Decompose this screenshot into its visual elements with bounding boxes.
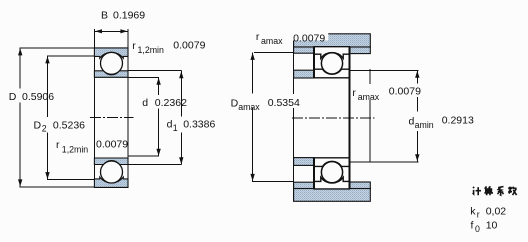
ball top (right view) bbox=[321, 53, 342, 74]
housing bottom-left shoulder bbox=[294, 182, 314, 188]
outer ring top (left view) bbox=[94, 48, 128, 58]
svg-text:1,2min: 1,2min bbox=[138, 45, 165, 55]
计算系数 (drawn glyphs) bbox=[473, 186, 517, 195]
ball top (left view) bbox=[101, 52, 123, 74]
svg-text:r: r bbox=[56, 139, 60, 151]
Damax dimension bbox=[252, 52, 254, 93]
ball bottom (left view) bbox=[101, 161, 123, 183]
svg-text:0.3386: 0.3386 bbox=[183, 119, 215, 131]
centerline right view bbox=[292, 117, 375, 119]
svg-text:0.2362: 0.2362 bbox=[155, 97, 187, 109]
svg-text:d: d bbox=[167, 119, 173, 131]
d dimension bbox=[128, 76, 159, 78]
svg-text:10: 10 bbox=[486, 220, 498, 232]
housing top band bbox=[294, 34, 371, 47]
svg-text:r: r bbox=[352, 87, 356, 99]
outer ring bottom (left view) bbox=[94, 177, 128, 187]
svg-text:0.0079: 0.0079 bbox=[173, 39, 205, 51]
svg-text:0.0079: 0.0079 bbox=[96, 139, 128, 151]
ball bottom (right view) bbox=[321, 162, 342, 183]
svg-text:0.1969: 0.1969 bbox=[113, 10, 145, 22]
shoulder line right top bbox=[349, 69, 418, 71]
right bearing inner ring top bbox=[314, 69, 349, 78]
bearing left face segments bbox=[313, 47, 315, 78]
housing bottom-right shoulder bbox=[350, 182, 371, 189]
svg-text:amin: amin bbox=[415, 120, 434, 130]
svg-text:2: 2 bbox=[42, 123, 47, 133]
right bearing outer ring top bbox=[314, 47, 349, 59]
svg-text:r: r bbox=[477, 210, 480, 220]
B dimension line bbox=[94, 30, 128, 32]
svg-text:0.5906: 0.5906 bbox=[22, 91, 54, 103]
shaft shoulder strip top-left bbox=[294, 70, 314, 78]
shaft shoulder strip bottom-left bbox=[294, 158, 314, 166]
svg-text:k: k bbox=[470, 205, 476, 217]
D dimension bbox=[20, 47, 95, 49]
r amax top-left leader bbox=[254, 51, 294, 53]
svg-text:amax: amax bbox=[238, 102, 260, 112]
svg-text:1: 1 bbox=[173, 123, 178, 133]
svg-text:D: D bbox=[34, 119, 42, 131]
svg-text:amax: amax bbox=[358, 92, 380, 102]
inner ring top (left view) bbox=[94, 71, 128, 78]
D2 dimension bbox=[47, 55, 95, 57]
shaft left edge bbox=[293, 34, 295, 94]
shoulder line right bottom bbox=[349, 161, 418, 163]
svg-text:0.5236: 0.5236 bbox=[53, 119, 85, 131]
svg-text:r: r bbox=[256, 31, 260, 43]
svg-text:B: B bbox=[101, 10, 108, 22]
svg-text:d: d bbox=[409, 115, 415, 127]
bearing right face bbox=[348, 47, 350, 189]
glyph 数 bbox=[508, 187, 516, 195]
d amin dimension bbox=[416, 70, 418, 83]
svg-text:f: f bbox=[471, 220, 474, 232]
svg-text:0,02: 0,02 bbox=[486, 205, 507, 217]
svg-text:d: d bbox=[142, 97, 148, 109]
glyph 算 bbox=[484, 186, 493, 195]
svg-text:0.2913: 0.2913 bbox=[442, 115, 474, 127]
glyph 计 bbox=[473, 187, 481, 195]
bearing side / extension line left bbox=[93, 29, 95, 188]
housing top-right shoulder bbox=[350, 47, 371, 54]
svg-text:0.0079: 0.0079 bbox=[293, 33, 325, 45]
svg-text:0: 0 bbox=[475, 224, 480, 234]
centerline left view bbox=[90, 117, 134, 119]
d1 dimension bbox=[128, 70, 182, 72]
housing top-left shoulder bbox=[294, 47, 314, 53]
bearing side / extension line right bbox=[127, 29, 129, 188]
svg-text:0.0079: 0.0079 bbox=[389, 86, 421, 98]
inner ring bottom (left view) bbox=[94, 158, 128, 165]
svg-text:0.5354: 0.5354 bbox=[268, 97, 300, 109]
svg-text:D: D bbox=[9, 91, 17, 103]
r amax right extension line bbox=[369, 69, 371, 84]
svg-text:amax: amax bbox=[261, 36, 283, 46]
right bearing outer ring bottom bbox=[314, 177, 349, 189]
housing bottom band bbox=[294, 189, 371, 202]
svg-text:r: r bbox=[132, 40, 136, 52]
right bearing inner ring bottom bbox=[314, 158, 349, 167]
svg-text:1,2min: 1,2min bbox=[62, 145, 89, 155]
glyph 系 bbox=[498, 187, 504, 196]
